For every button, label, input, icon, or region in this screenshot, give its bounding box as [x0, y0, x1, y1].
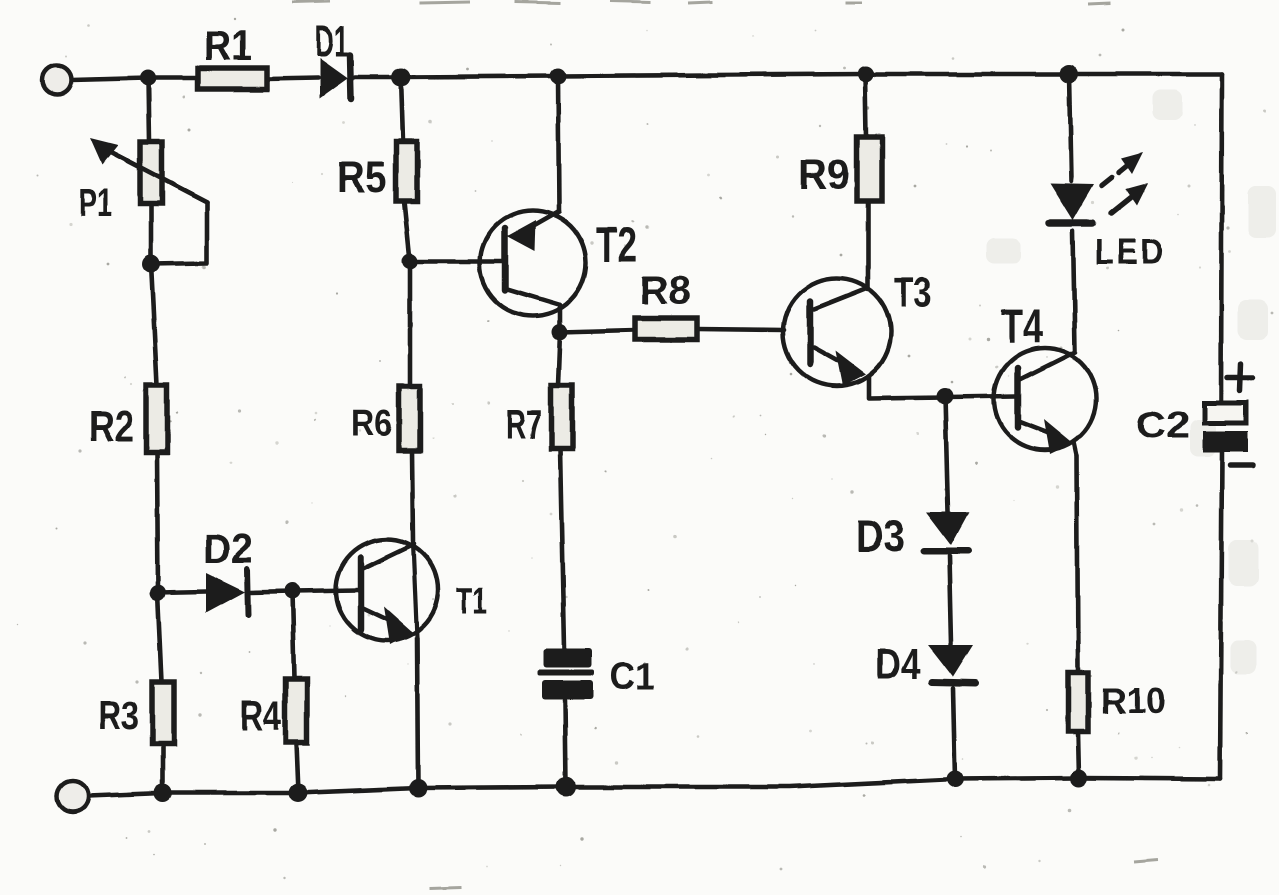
svg-text:C2: C2 [1136, 405, 1190, 447]
svg-text:C1: C1 [609, 656, 655, 698]
svg-text:R1: R1 [204, 22, 252, 69]
svg-text:D3: D3 [856, 510, 905, 562]
svg-text:T1: T1 [456, 581, 487, 623]
svg-text:R2: R2 [89, 402, 134, 451]
svg-text:R6: R6 [351, 403, 392, 445]
svg-text:R3: R3 [98, 694, 139, 738]
svg-text:R10: R10 [1100, 680, 1166, 721]
svg-text:R9: R9 [798, 151, 850, 198]
svg-text:D1: D1 [315, 17, 349, 66]
svg-text:R7: R7 [506, 401, 542, 448]
svg-text:T2: T2 [596, 217, 637, 273]
svg-text:LED: LED [1095, 231, 1166, 272]
svg-text:T3: T3 [894, 268, 932, 315]
svg-text:R5: R5 [337, 153, 387, 202]
svg-text:D2: D2 [203, 525, 253, 572]
svg-text:D4: D4 [876, 640, 920, 689]
svg-text:R4: R4 [240, 692, 281, 739]
svg-text:T4: T4 [1001, 301, 1043, 354]
svg-text:R8: R8 [639, 269, 691, 313]
svg-text:P1: P1 [79, 181, 112, 225]
